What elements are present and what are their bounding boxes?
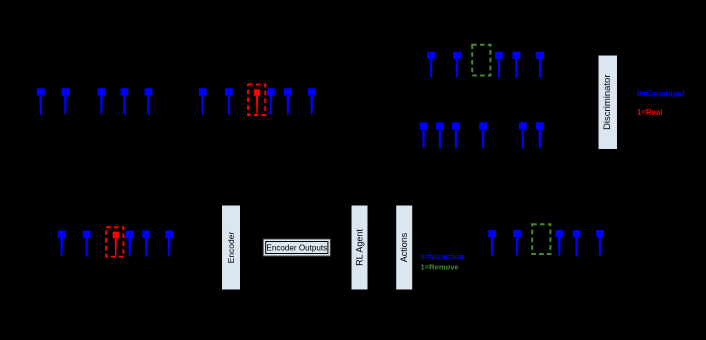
pin A7 — [225, 88, 233, 115]
pin D1 — [58, 231, 66, 258]
encoder box — [222, 205, 241, 290]
pin D6 — [165, 231, 173, 258]
pin C3 — [452, 122, 460, 149]
pin A9 — [267, 88, 275, 115]
pin A10 — [284, 88, 292, 115]
pin C2 — [436, 122, 444, 149]
discriminator box — [598, 55, 618, 150]
pin A1 — [37, 88, 45, 115]
red dashed box A — [248, 85, 265, 116]
pin A11 — [308, 88, 316, 115]
svg-text:RL Agent: RL Agent — [355, 229, 365, 266]
svg-text:1=Real: 1=Real — [637, 108, 662, 117]
pin B3 — [495, 52, 503, 79]
row E: output sequence bottom-right — [488, 224, 604, 257]
svg-text:0=No action: 0=No action — [421, 252, 465, 261]
pin E3 — [555, 230, 563, 257]
svg-text:Encoder: Encoder — [226, 232, 236, 264]
pin A4 — [121, 88, 129, 115]
red pin D3 — [113, 232, 119, 258]
red dashed box D — [106, 227, 123, 256]
pin C6 — [536, 122, 544, 149]
svg-text:Actions: Actions — [399, 232, 409, 262]
pin E5 — [596, 230, 604, 257]
pin A2 — [62, 88, 70, 115]
green dashed box B — [472, 45, 490, 76]
pin D2 — [83, 231, 91, 258]
RL agent box — [351, 205, 368, 290]
pin E2 — [513, 230, 521, 257]
actions box — [396, 205, 413, 290]
row B: real sequence with removed event top-right upper — [427, 45, 544, 79]
red pin A8 — [254, 89, 260, 115]
pin B1 — [427, 52, 435, 79]
row C: generated sequence top-right lower — [420, 122, 544, 149]
pin E4 — [573, 230, 581, 257]
pin D5 — [142, 231, 150, 258]
pin B4 — [513, 52, 521, 79]
pin A3 — [98, 88, 106, 115]
pin C5 — [519, 122, 527, 149]
svg-text:Discriminator: Discriminator — [602, 74, 613, 129]
row A: generated sequence top-left — [37, 85, 316, 116]
pin C4 — [479, 122, 487, 149]
pin B2 — [453, 52, 461, 79]
svg-text:0=Generated: 0=Generated — [637, 90, 685, 99]
pin D4 — [126, 231, 134, 258]
row D: input sequence bottom-left — [58, 227, 173, 258]
green dashed box E — [532, 224, 550, 254]
pin C1 — [420, 122, 428, 149]
pin A5 — [145, 88, 153, 115]
svg-text:1=Remove: 1=Remove — [421, 263, 459, 272]
encoder outputs box — [263, 239, 330, 256]
svg-text:Encoder Outputs: Encoder Outputs — [266, 243, 327, 252]
pin E1 — [488, 230, 496, 257]
pin B5 — [536, 52, 544, 79]
pin A6 — [199, 88, 207, 115]
